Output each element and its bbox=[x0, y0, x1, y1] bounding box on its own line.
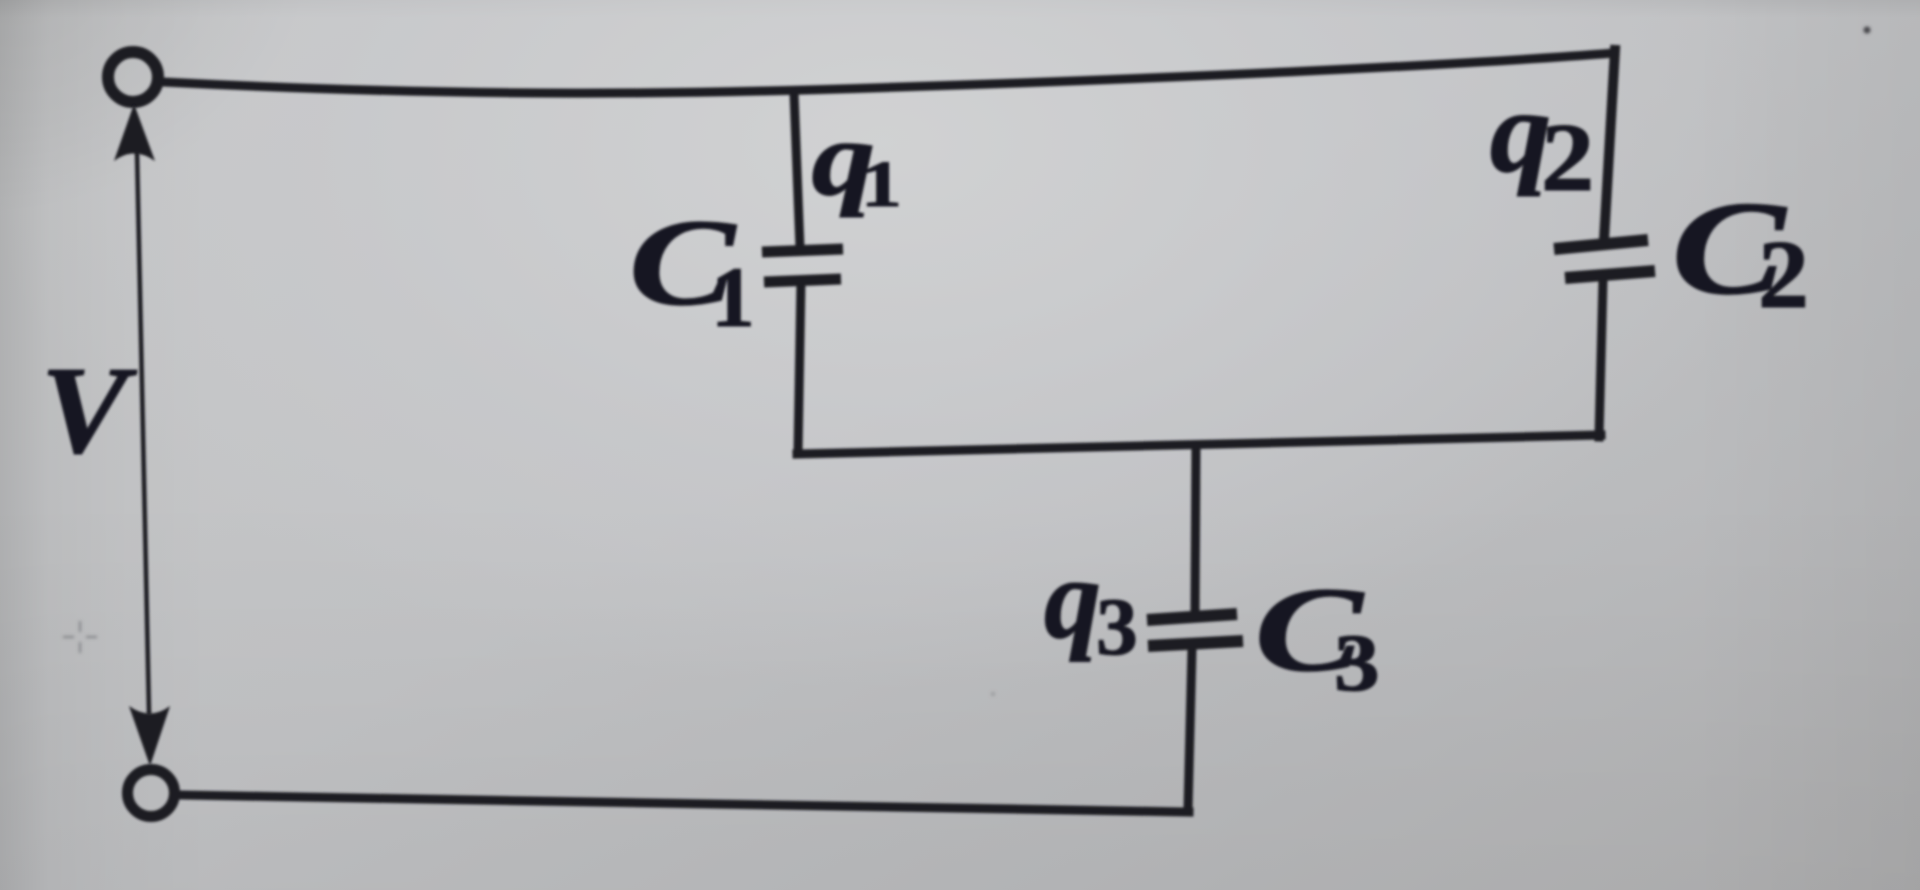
terminal bottom-left bbox=[128, 770, 175, 817]
dust speck faint bbox=[991, 692, 995, 696]
svg-text:3: 3 bbox=[1096, 581, 1138, 672]
svg-text:q: q bbox=[1044, 535, 1101, 662]
svg-text:V: V bbox=[41, 341, 138, 479]
wire C1 stem top bbox=[794, 93, 800, 248]
wire C2 stem top bbox=[1604, 50, 1615, 240]
focus cross mark bbox=[63, 621, 97, 653]
wire top (from top-left terminal to C2 corner) bbox=[163, 53, 1614, 93]
svg-text:1: 1 bbox=[711, 250, 755, 345]
svg-text:2: 2 bbox=[1758, 220, 1809, 329]
capacitor C1 bbox=[762, 249, 843, 282]
wire C3 stem top bbox=[1195, 446, 1196, 612]
wire C2 stem bottom bbox=[1599, 280, 1603, 437]
wire bottom (from bottom-left terminal to C3) bbox=[181, 795, 1189, 812]
capacitor C2 bbox=[1554, 240, 1655, 278]
wire middle (C1 bottom to C2 bottom) bbox=[797, 435, 1601, 454]
voltage arrow head up bbox=[114, 104, 155, 161]
terminal top-left bbox=[108, 52, 158, 102]
dust speck top-right bbox=[1864, 27, 1871, 34]
voltage arrow V line bbox=[137, 152, 149, 713]
voltage arrow head down bbox=[129, 706, 170, 766]
svg-text:2: 2 bbox=[1541, 104, 1594, 212]
svg-text:3: 3 bbox=[1334, 617, 1380, 708]
wire C1 stem bottom bbox=[798, 281, 801, 452]
capacitor C3 bbox=[1147, 614, 1243, 646]
wire C3 stem bottom bbox=[1188, 649, 1192, 809]
svg-text:1: 1 bbox=[861, 148, 902, 221]
